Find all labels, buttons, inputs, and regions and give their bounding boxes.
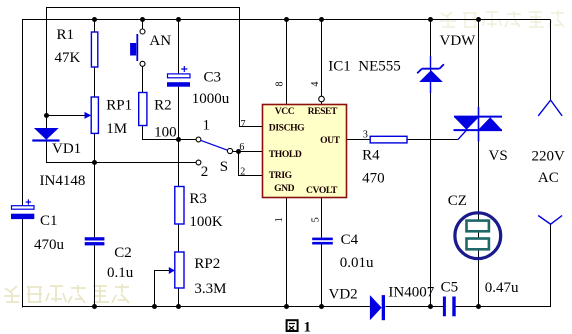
svg-text:GND: GND	[274, 183, 295, 194]
wire R1 to RP1	[94, 67, 96, 97]
pin 6 label	[239, 142, 244, 153]
svg-text:100K: 100K	[189, 214, 223, 230]
svg-text:0.1u: 0.1u	[107, 265, 134, 281]
svg-text:2: 2	[201, 164, 209, 180]
svg-text:C2: C2	[114, 245, 132, 261]
op-amp U1 NE555 body	[263, 59, 401, 198]
wire VDW column	[430, 20, 432, 308]
svg-text:0.01u: 0.01u	[340, 255, 374, 271]
svg-text:IN4148: IN4148	[40, 173, 86, 189]
resistor R3	[175, 187, 223, 231]
svg-text:1000u: 1000u	[192, 91, 230, 107]
wire triac-CZ column	[478, 20, 480, 308]
wire AN top	[142, 20, 144, 30]
pin 1 label	[274, 217, 285, 222]
wire C2 to bottom	[94, 245, 96, 307]
wire pin3 OUT to R4	[347, 139, 371, 141]
AC upper terminal	[538, 100, 562, 116]
pin 4 label	[310, 82, 321, 87]
svg-text:IC1 NE555: IC1 NE555	[328, 59, 401, 75]
svg-text:VD1: VD1	[52, 141, 81, 157]
svg-text:1M: 1M	[106, 121, 127, 137]
wire RP2 to bottom	[178, 288, 180, 307]
svg-text:RESET: RESET	[308, 106, 338, 117]
svg-text:1: 1	[304, 319, 312, 334]
svg-text:47K: 47K	[55, 50, 81, 66]
pin 7 label	[241, 119, 246, 130]
wire C4 to bottom	[321, 245, 323, 308]
watermark top right	[440, 10, 564, 27]
node dot bottom C2	[92, 304, 97, 309]
wire C3 to R3	[178, 87, 180, 187]
switch S pole	[201, 140, 233, 175]
svg-text:1: 1	[203, 117, 211, 133]
wire R4 to triac gate	[407, 139, 458, 141]
svg-text:RP1: RP1	[106, 97, 132, 113]
potentiometer RP2	[169, 252, 227, 297]
node dot bottom C4	[319, 304, 324, 309]
svg-text:AN: AN	[149, 33, 171, 49]
node dot rail C3	[176, 17, 181, 22]
node dot VD1 wiper	[44, 113, 49, 118]
AC lower terminal	[532, 149, 566, 225]
wire switch pole to pin6	[233, 151, 263, 153]
watermark bottom left	[4, 284, 129, 303]
pin 8 label	[275, 82, 286, 87]
svg-text:3.3M: 3.3M	[194, 281, 226, 297]
svg-text:R1: R1	[57, 27, 75, 43]
node dot bottom RP2	[176, 304, 181, 309]
svg-text:7: 7	[241, 119, 246, 130]
svg-text:VD2: VD2	[329, 286, 358, 302]
switch S contact 2	[196, 160, 208, 180]
node dot bottom VDW	[428, 304, 433, 309]
svg-text:R3: R3	[189, 191, 207, 207]
zener diode VDW	[417, 33, 476, 93]
svg-text:DISCHG: DISCHG	[269, 123, 305, 134]
svg-text:TRIG: TRIG	[269, 170, 293, 181]
svg-text:C5: C5	[441, 279, 459, 295]
svg-text:CVOLT: CVOLT	[306, 185, 338, 196]
svg-text:220V: 220V	[532, 149, 566, 165]
svg-text:470u: 470u	[34, 237, 65, 253]
wire R2 bottom to switch contact 1	[143, 126, 197, 140]
svg-text:8: 8	[275, 82, 286, 87]
svg-text:OUT: OUT	[320, 135, 341, 146]
svg-text:AC: AC	[538, 170, 559, 186]
wire VD1 bottom to switch contact 2	[47, 142, 197, 163]
svg-text:RP2: RP2	[194, 256, 220, 272]
wire R1 top	[94, 20, 96, 33]
pin 5 label	[310, 217, 321, 222]
svg-text:THOLD: THOLD	[269, 149, 302, 160]
wire pin8 VCC	[286, 20, 288, 105]
diode VD1	[32, 128, 85, 189]
wire R3 to RP2	[178, 224, 180, 252]
wire left rail upper (rail to C1)	[22, 19, 24, 206]
svg-text:1: 1	[274, 217, 285, 222]
resistor R2	[139, 93, 177, 141]
capacitor C3 electrolytic	[167, 66, 230, 107]
node dot rail triac	[476, 17, 481, 22]
svg-text:100: 100	[154, 124, 177, 140]
wire pin5 to C4	[321, 198, 323, 238]
svg-text:470: 470	[362, 171, 385, 187]
svg-text:S: S	[220, 159, 228, 175]
node dot rail R1	[92, 17, 97, 22]
svg-text:4: 4	[310, 82, 321, 87]
capacitor C1 electrolytic	[11, 199, 65, 253]
svg-text:R2: R2	[154, 97, 172, 113]
wire right top (rail to AC upper terminal)	[550, 20, 552, 101]
switch S contact 1	[196, 117, 210, 142]
reset pin connector circle	[319, 96, 325, 102]
capacitor C2	[85, 237, 134, 281]
svg-text:CZ: CZ	[448, 193, 467, 209]
svg-text:R4: R4	[362, 147, 380, 163]
pin 3 label	[363, 130, 368, 141]
svg-text:C3: C3	[204, 69, 222, 85]
svg-text:C4: C4	[341, 232, 359, 248]
wire bottom rail left segment	[22, 306, 370, 308]
pushbutton AN	[130, 29, 171, 66]
triac VS	[454, 107, 508, 164]
svg-text:0.47u: 0.47u	[485, 280, 519, 296]
resistor R4	[362, 136, 407, 186]
wire RP2 wiper arm	[155, 271, 170, 308]
capacitor C4	[312, 232, 374, 271]
resistor R1	[55, 27, 98, 67]
wire pin4 RESET upper	[321, 20, 323, 97]
node dot rail pin4	[319, 17, 324, 22]
node dot bottom RP2 wiper	[152, 304, 157, 309]
wire top supply rail	[23, 19, 551, 21]
node dot C3 R2 junction	[176, 137, 181, 142]
wire bottom rail right segment up to AC lower terminal	[456, 224, 551, 307]
wire pin1 GND	[286, 198, 288, 308]
node dot bottom pin1	[284, 304, 289, 309]
node dot rail pin8	[284, 17, 289, 22]
node dot rail VDW	[428, 17, 433, 22]
socket CZ	[448, 193, 501, 259]
node dot bottom CZ	[476, 304, 481, 309]
caption figure 1	[287, 319, 311, 334]
svg-text:6: 6	[239, 142, 244, 153]
potentiometer RP1	[85, 97, 133, 137]
svg-text:3: 3	[363, 130, 368, 141]
node dot switch pole	[236, 149, 241, 154]
svg-text:IN4007: IN4007	[388, 285, 434, 301]
svg-text:VDW: VDW	[440, 33, 477, 49]
wire C3 top	[178, 20, 180, 75]
wire RP1 to C2	[94, 134, 96, 238]
svg-text:VS: VS	[489, 148, 508, 164]
diode VD2	[329, 285, 435, 321]
svg-text:C1: C1	[40, 213, 58, 229]
svg-text:5: 5	[310, 217, 321, 222]
wire inner loop VD1 top / pin7	[47, 8, 263, 129]
wire left rail lower (C1 to bottom)	[22, 219, 24, 308]
wire RP1 wiper arm	[47, 115, 86, 117]
wire bottom rail mid segment	[386, 306, 444, 308]
svg-text:2: 2	[240, 167, 245, 178]
node dot RP1 bottom	[92, 160, 97, 165]
pin 2 label	[240, 167, 245, 178]
svg-text:VCC: VCC	[275, 106, 295, 117]
capacitor C5	[441, 279, 519, 316]
node dot rail AN	[140, 17, 145, 22]
wire pin6 to pin2 tie	[239, 152, 263, 176]
wire AN to R2	[142, 67, 144, 93]
wire pin4 RESET stub	[321, 102, 323, 105]
